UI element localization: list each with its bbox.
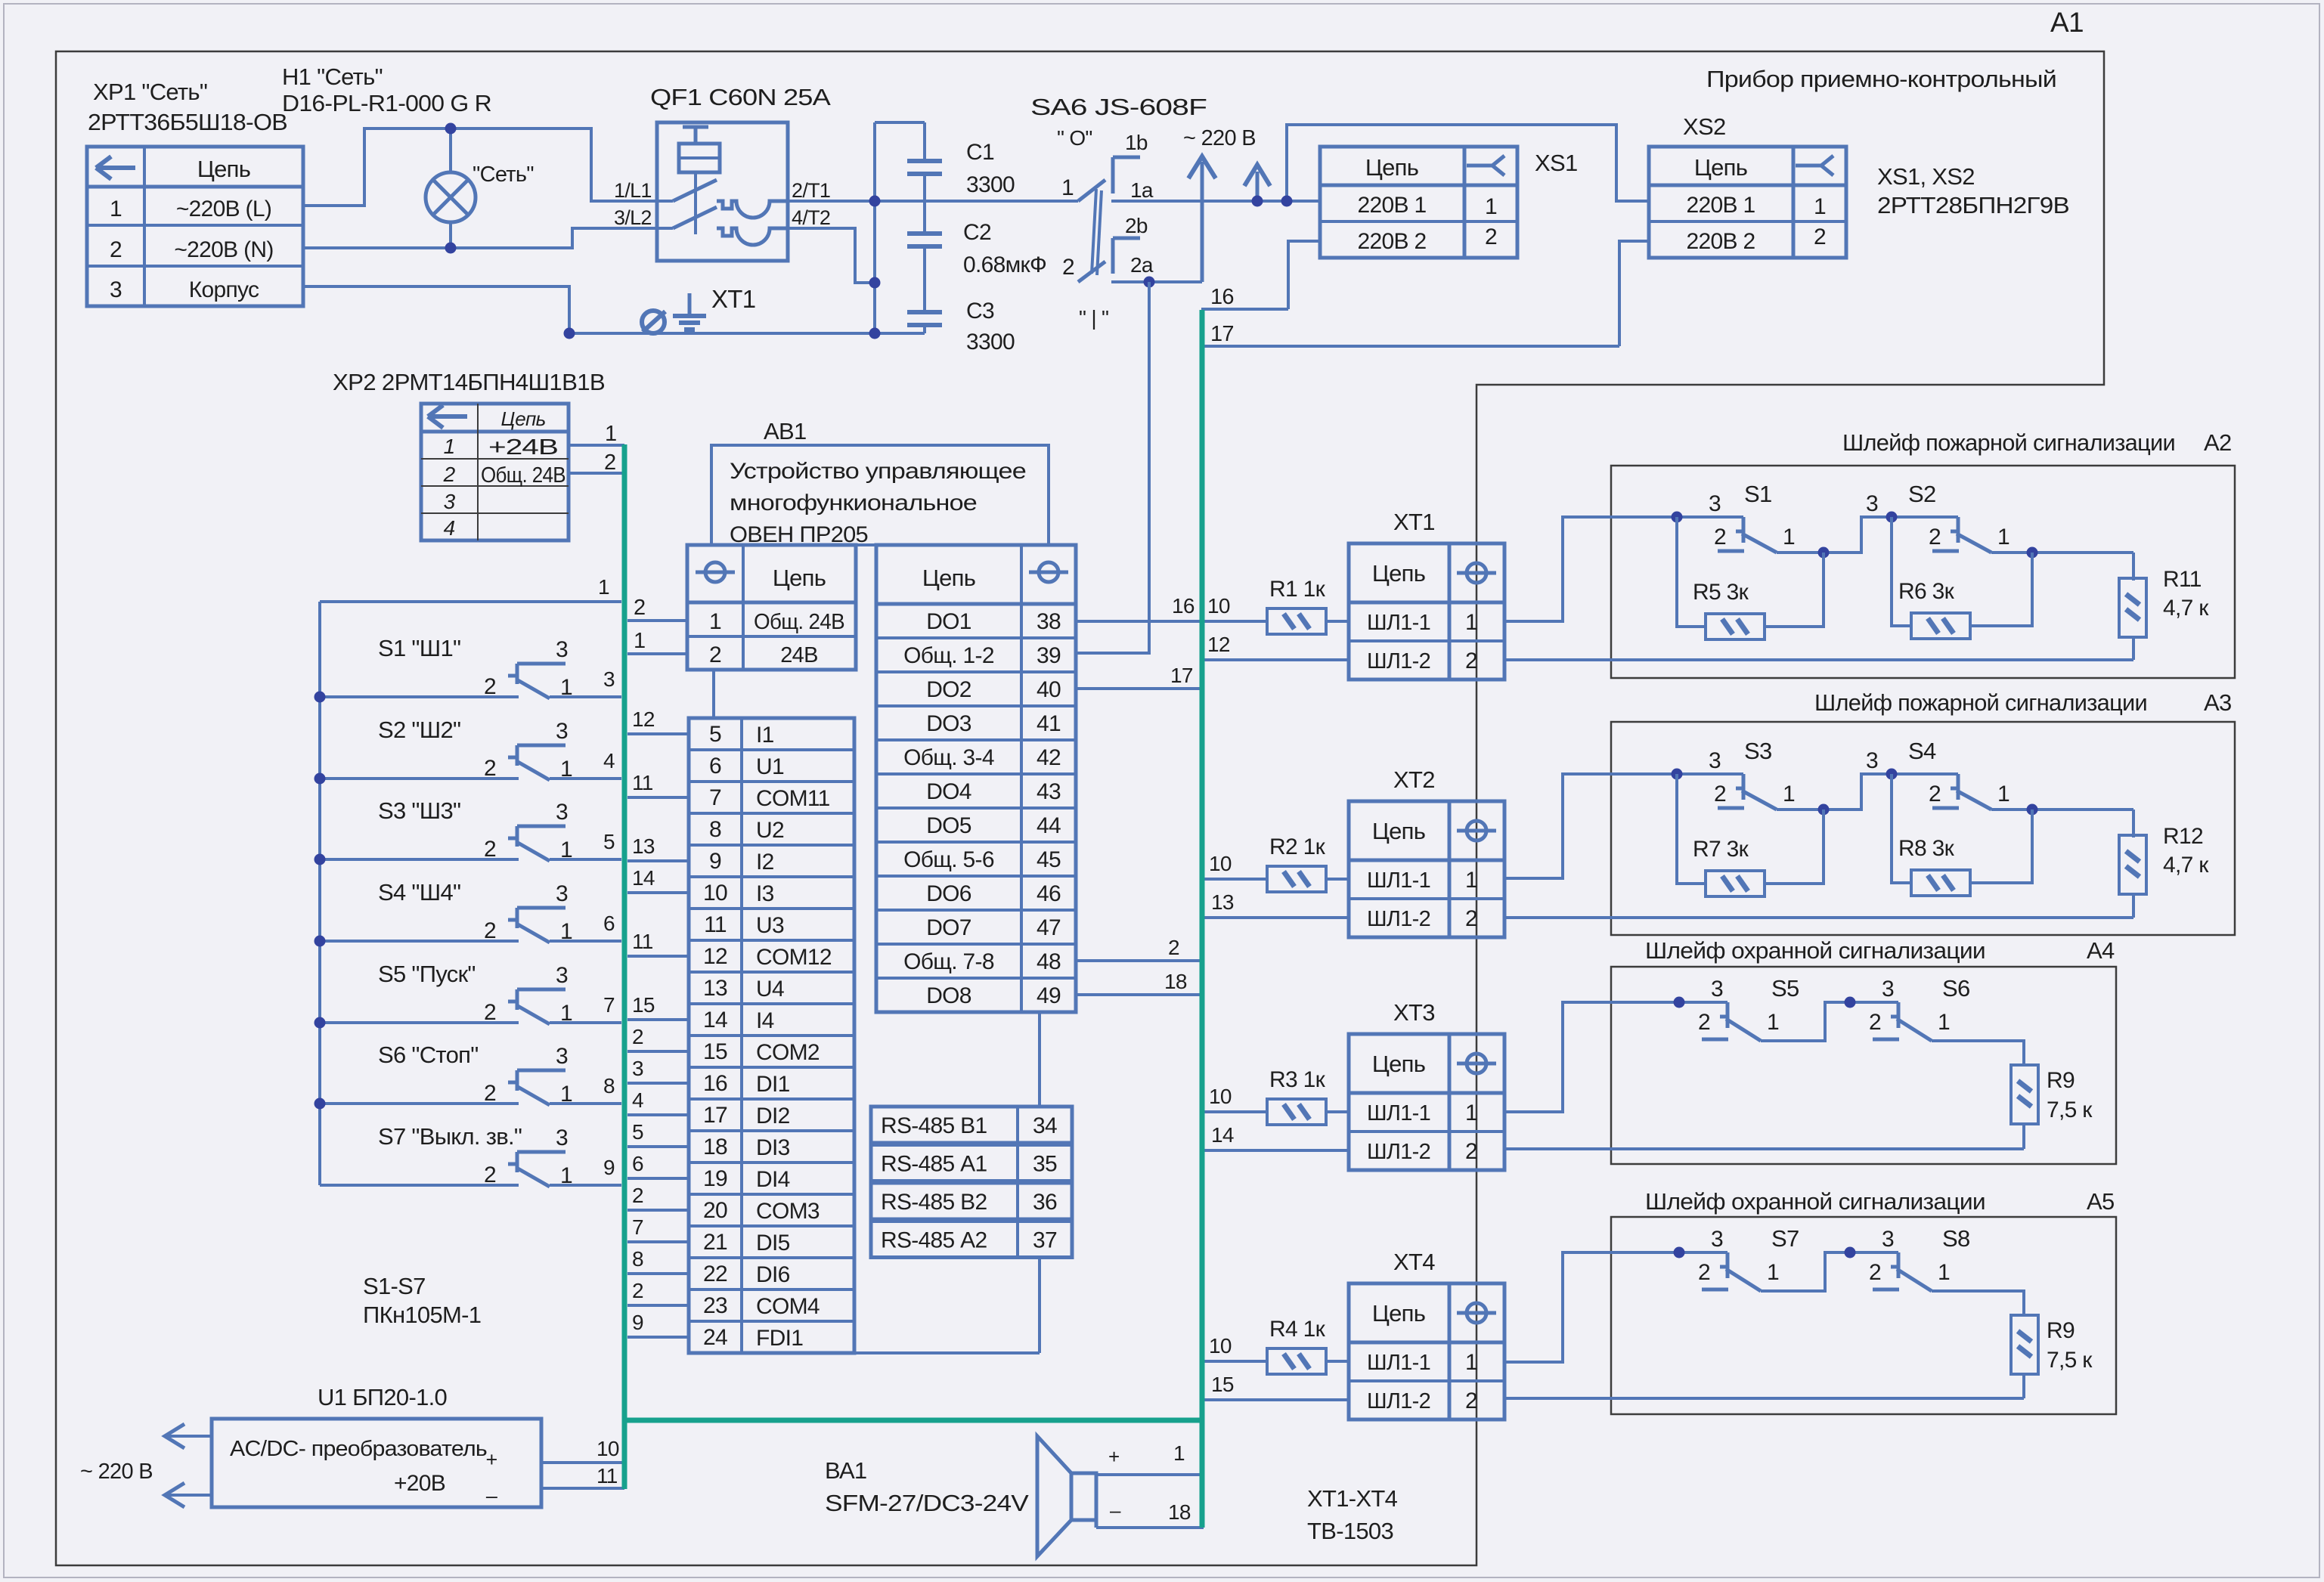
svg-text:48: 48 <box>1037 949 1061 974</box>
svg-text:R9: R9 <box>2047 1068 2075 1093</box>
svg-text:7: 7 <box>603 993 615 1017</box>
svg-text:9: 9 <box>632 1311 643 1334</box>
svg-text:2: 2 <box>1929 782 1941 806</box>
svg-text:49: 49 <box>1037 983 1061 1008</box>
svg-text:S5: S5 <box>1771 975 1799 1002</box>
svg-text:ШЛ1-1: ШЛ1-1 <box>1367 611 1430 635</box>
svg-text:3: 3 <box>556 719 568 744</box>
resistor R3 <box>1267 1099 1326 1125</box>
svg-text:2b: 2b <box>1125 214 1148 237</box>
svg-text:1: 1 <box>1938 1010 1950 1035</box>
svg-text:4,7 к: 4,7 к <box>2163 596 2209 621</box>
svg-text:1: 1 <box>1465 610 1477 635</box>
wire green bus bottom horizontal <box>624 1418 1204 1423</box>
svg-text:1/L1: 1/L1 <box>614 179 652 202</box>
svg-text:А4: А4 <box>2087 937 2115 964</box>
svg-text:ШЛ1-2: ШЛ1-2 <box>1367 907 1430 931</box>
wire RS table link top <box>1038 1012 1041 1107</box>
svg-text:2: 2 <box>1929 525 1941 550</box>
svg-text:220В 2: 220В 2 <box>1358 229 1427 254</box>
svg-text:+: + <box>1108 1445 1119 1468</box>
svg-text:Прибор приемно-контрольный: Прибор приемно-контрольный <box>1706 66 2056 92</box>
svg-text:1: 1 <box>598 575 609 599</box>
svg-text:XP2 2РМТ14БПН4Ш1В1В: XP2 2РМТ14БПН4Ш1В1В <box>333 369 605 395</box>
svg-text:+: + <box>485 1448 497 1471</box>
svg-text:ШЛ1-1: ШЛ1-1 <box>1367 1101 1430 1125</box>
svg-text:RS-485 В1: RS-485 В1 <box>881 1113 987 1138</box>
svg-text:COM2: COM2 <box>756 1040 820 1065</box>
svg-text:2: 2 <box>443 463 456 486</box>
svg-text:D16-PL-R1-000 G R: D16-PL-R1-000 G R <box>282 90 491 116</box>
svg-text:7: 7 <box>709 785 721 810</box>
svg-text:Общ. 24В: Общ. 24В <box>754 610 844 634</box>
svg-text:2a: 2a <box>1130 253 1154 277</box>
svg-text:U1: U1 <box>756 754 784 779</box>
svg-text:12: 12 <box>1207 633 1230 656</box>
svg-text:220В 2: 220В 2 <box>1687 229 1755 254</box>
switch S6 <box>1850 1001 1898 1004</box>
svg-text:8: 8 <box>632 1247 643 1271</box>
svg-text:Шлейф пожарной сигнализации: Шлейф пожарной сигнализации <box>1842 429 2175 456</box>
svg-text:11: 11 <box>704 912 727 937</box>
svg-text:Цепь: Цепь <box>1372 818 1425 844</box>
resistor R1 <box>1267 608 1326 634</box>
connector XS2 table <box>1649 147 1846 258</box>
wire between S3 and S4 <box>1777 774 1892 810</box>
wire R1 out to XT1 <box>1326 620 1349 623</box>
svg-text:8: 8 <box>603 1074 615 1097</box>
svg-text:9: 9 <box>603 1156 615 1179</box>
svg-text:2: 2 <box>1465 906 1477 931</box>
svg-text:U2: U2 <box>756 818 784 843</box>
terminal block XT1 table <box>1349 543 1504 680</box>
wire T2 to capacitor bank <box>788 228 875 283</box>
speaker BA1 <box>1071 1473 1096 1520</box>
svg-text:6: 6 <box>709 754 721 779</box>
wire 17 <box>1201 345 1619 348</box>
svg-text:" О": " О" <box>1057 126 1092 150</box>
svg-text:6: 6 <box>603 912 615 935</box>
wire loop entry <box>1504 1002 1679 1112</box>
resistor R5 <box>1677 517 1706 627</box>
svg-text:18: 18 <box>1168 1500 1191 1524</box>
wire 16 net from AB1 pin38 to R1 <box>1076 620 1267 623</box>
wire 13 to XT2 row2 <box>1204 916 1349 919</box>
svg-text:1: 1 <box>1465 1101 1477 1125</box>
svg-text:4: 4 <box>603 749 615 772</box>
svg-text:2: 2 <box>484 1081 496 1106</box>
svg-text:Цепь: Цепь <box>1372 560 1425 587</box>
svg-text:3: 3 <box>1711 977 1723 1002</box>
svg-text:R8 3к: R8 3к <box>1898 836 1955 861</box>
svg-text:1: 1 <box>1997 782 2009 806</box>
svg-text:Цепь: Цепь <box>197 156 250 182</box>
svg-text:1: 1 <box>1485 194 1497 219</box>
terminal block XT2 table <box>1349 801 1504 937</box>
svg-text:45: 45 <box>1037 847 1061 872</box>
svg-text:43: 43 <box>1037 779 1061 804</box>
svg-text:3: 3 <box>1709 491 1721 516</box>
svg-text:S7 "Выкл. зв.": S7 "Выкл. зв." <box>378 1123 522 1150</box>
svg-text:C2: C2 <box>963 220 991 245</box>
svg-text:1: 1 <box>1814 194 1826 219</box>
wire AB1 table link <box>712 670 715 718</box>
svg-text:2: 2 <box>632 1184 643 1207</box>
svg-text:3/L2: 3/L2 <box>614 206 652 229</box>
junction bottom rail <box>869 328 881 339</box>
svg-text:6: 6 <box>632 1152 643 1175</box>
svg-text:10: 10 <box>1209 852 1232 875</box>
svg-text:DO4: DO4 <box>926 779 971 804</box>
switch S1 <box>1677 515 1743 519</box>
svg-text:XT2: XT2 <box>1393 766 1435 793</box>
svg-text:ШЛ1-2: ШЛ1-2 <box>1367 1389 1430 1413</box>
resistor R9 end of line <box>2011 1065 2038 1124</box>
svg-text:А5: А5 <box>2087 1188 2115 1215</box>
svg-text:RS-485 А2: RS-485 А2 <box>881 1228 987 1253</box>
wire BA1 plus <box>1096 1473 1204 1476</box>
svg-text:14: 14 <box>1211 1123 1234 1147</box>
svg-text:2: 2 <box>484 837 496 862</box>
svg-text:Цепь: Цепь <box>1365 154 1418 181</box>
svg-text:17: 17 <box>1210 322 1234 346</box>
svg-text:U3: U3 <box>756 913 784 938</box>
svg-text:–: – <box>1110 1499 1121 1522</box>
junction 2a <box>1144 277 1155 288</box>
svg-text:4: 4 <box>632 1088 643 1112</box>
switch S3 <box>1677 772 1743 776</box>
svg-text:2РТТ28БПН2Г9В: 2РТТ28БПН2Г9В <box>1877 192 2069 218</box>
circuit breaker QF1 box <box>657 122 788 261</box>
svg-text:4,7 к: 4,7 к <box>2163 853 2209 878</box>
lamp H1 <box>426 172 476 222</box>
connector XP2 table <box>421 404 569 540</box>
switch S7 <box>1679 1251 1728 1254</box>
wire loop return <box>1504 1397 2024 1400</box>
svg-text:Общ. 3-4: Общ. 3-4 <box>903 745 994 770</box>
svg-text:1: 1 <box>1173 1441 1185 1465</box>
junction T2 rail <box>869 277 881 289</box>
svg-text:QF1 C60N 25A: QF1 C60N 25A <box>650 84 831 110</box>
junction S3 out <box>1818 804 1830 816</box>
svg-text:12: 12 <box>703 944 727 969</box>
svg-text:1: 1 <box>560 919 572 944</box>
svg-text:17: 17 <box>1170 664 1193 687</box>
svg-text:DO7: DO7 <box>926 915 971 940</box>
connector AB1 power table <box>687 545 856 670</box>
svg-text:40: 40 <box>1037 677 1061 702</box>
svg-text:XT3: XT3 <box>1393 999 1435 1026</box>
wire 39 from junction 2a to AB1 pin 39 <box>1076 282 1149 653</box>
wire green bus right vertical <box>1200 310 1205 1528</box>
svg-text:Общ. 24В: Общ. 24В <box>481 463 566 488</box>
svg-text:SA6 JS-608F: SA6 JS-608F <box>1030 94 1207 120</box>
svg-text:14: 14 <box>632 866 655 890</box>
svg-text:R2 1к: R2 1к <box>1269 834 1326 859</box>
wire 10 from green bus to R3 <box>1204 1110 1267 1113</box>
svg-text:3: 3 <box>1866 491 1878 516</box>
svg-text:Цепь: Цепь <box>773 565 826 591</box>
svg-text:15: 15 <box>703 1039 727 1064</box>
svg-text:1: 1 <box>560 1001 572 1026</box>
svg-text:+20В: +20В <box>394 1471 445 1496</box>
svg-text:Корпус: Корпус <box>189 277 259 302</box>
svg-text:S3 "Ш3": S3 "Ш3" <box>378 797 460 824</box>
ground clamp symbol <box>642 311 665 333</box>
svg-text:XS2: XS2 <box>1683 113 1726 140</box>
svg-text:7,5 к: 7,5 к <box>2047 1348 2093 1373</box>
svg-text:2: 2 <box>1465 1389 1477 1413</box>
svg-text:17: 17 <box>703 1103 727 1128</box>
svg-text:SFM-27/DC3-24V: SFM-27/DC3-24V <box>825 1490 1029 1516</box>
svg-text:47: 47 <box>1037 915 1061 940</box>
svg-text:1: 1 <box>560 1082 572 1107</box>
svg-text:Общ. 5-6: Общ. 5-6 <box>903 847 994 872</box>
svg-text:многофункиональное: многофункиональное <box>730 491 977 515</box>
svg-text:Цепь: Цепь <box>1372 1300 1425 1327</box>
svg-text:13: 13 <box>632 834 655 858</box>
svg-text:1: 1 <box>1783 782 1795 806</box>
switch S5 <box>320 1021 519 1024</box>
resistor R6 <box>1892 517 1911 626</box>
svg-text:1: 1 <box>1767 1260 1779 1285</box>
svg-text:R5 3к: R5 3к <box>1693 580 1749 605</box>
svg-text:1: 1 <box>605 422 616 446</box>
svg-text:3: 3 <box>603 667 615 691</box>
wire 220V arrow right <box>1256 172 1260 201</box>
svg-text:ШЛ1-2: ШЛ1-2 <box>1367 649 1430 673</box>
switch S7 <box>320 1184 519 1187</box>
wire 15 to XT4 row2 <box>1204 1398 1349 1401</box>
svg-text:3: 3 <box>556 1125 568 1150</box>
svg-text:2: 2 <box>484 1000 496 1025</box>
wire 2 from XP2 <box>569 472 622 475</box>
svg-text:А2: А2 <box>2204 429 2232 456</box>
junction lamp top <box>445 123 457 135</box>
svg-text:2РТТ36Б5Ш18-ОВ: 2РТТ36Б5Ш18-ОВ <box>88 109 287 135</box>
svg-text:S1 "Ш1": S1 "Ш1" <box>378 635 460 661</box>
svg-text:ШЛ1-1: ШЛ1-1 <box>1367 868 1430 893</box>
svg-text:3: 3 <box>1709 748 1721 773</box>
svg-text:COM4: COM4 <box>756 1294 820 1319</box>
svg-text:R3 1к: R3 1к <box>1269 1067 1326 1092</box>
svg-text:44: 44 <box>1037 813 1061 838</box>
svg-text:41: 41 <box>1037 711 1061 736</box>
svg-text:34: 34 <box>1033 1113 1057 1138</box>
svg-text:S1-S7: S1-S7 <box>363 1273 426 1299</box>
terminal block XT3 table <box>1349 1034 1504 1170</box>
wire R2 out to XT2 <box>1326 878 1349 881</box>
ground symbol XT1 <box>688 293 692 316</box>
wire 2 to AB1 pin1 <box>627 619 687 622</box>
wire R4 out to XT4 <box>1326 1360 1349 1363</box>
svg-text:18: 18 <box>1164 970 1187 993</box>
svg-text:Устройство управляющее: Устройство управляющее <box>730 459 1026 484</box>
svg-text:C3: C3 <box>966 299 994 324</box>
svg-text:COM11: COM11 <box>756 786 830 811</box>
wire 10 from U1 <box>541 1461 624 1464</box>
svg-text:Шлейф охранной сигнализации: Шлейф охранной сигнализации <box>1645 937 1985 964</box>
junction arrow right <box>1252 196 1263 207</box>
resistor R8 <box>1892 774 1911 883</box>
switch S4 <box>1892 772 1958 776</box>
wire loop entry <box>1504 774 1677 878</box>
svg-text:R4 1к: R4 1к <box>1269 1317 1326 1342</box>
svg-text:~220В (N): ~220В (N) <box>174 237 273 262</box>
svg-text:1a: 1a <box>1130 178 1154 202</box>
svg-text:S6 "Стоп": S6 "Стоп" <box>378 1042 479 1068</box>
svg-text:I3: I3 <box>756 881 774 906</box>
svg-text:~ 220 В: ~ 220 В <box>1183 126 1256 150</box>
svg-text:2: 2 <box>1698 1010 1710 1035</box>
wire to end resistor <box>1932 1291 2024 1316</box>
wire switch common bus <box>318 602 321 1185</box>
svg-text:3: 3 <box>556 1044 568 1069</box>
switch SA6 pole 2 <box>1078 262 1105 282</box>
switch S3 <box>320 858 519 861</box>
svg-text:3: 3 <box>556 881 568 906</box>
QF1 pole 1 contact <box>657 200 673 203</box>
wire 14 to XT3 row2 <box>1204 1149 1349 1152</box>
svg-text:U1 БП20-1.0: U1 БП20-1.0 <box>318 1384 448 1410</box>
capacitor bank top link <box>875 121 925 124</box>
svg-text:Шлейф охранной сигнализации: Шлейф охранной сигнализации <box>1645 1188 1985 1215</box>
switch S1 <box>320 695 519 698</box>
wire 10 from green bus to R2 <box>1204 878 1267 881</box>
svg-text:23: 23 <box>703 1293 727 1318</box>
wire link to XS2 row1 <box>1287 125 1649 201</box>
wire green bus left vertical <box>622 444 627 1489</box>
block A3 box <box>1611 722 2235 935</box>
switch S5 <box>1679 1001 1728 1004</box>
svg-text:2: 2 <box>632 1279 643 1302</box>
wire between S7 and S8 <box>1761 1252 1850 1291</box>
svg-text:S7: S7 <box>1771 1225 1799 1252</box>
wire T1 bus to switch SA6 <box>788 200 1078 203</box>
svg-text:DI3: DI3 <box>756 1135 790 1160</box>
wire 17 from AB1 pin40 <box>1076 687 1201 690</box>
wire R3 out to XT3 <box>1326 1110 1349 1113</box>
wire RS table link bottom <box>1038 1259 1041 1353</box>
svg-text:1: 1 <box>634 629 645 653</box>
svg-text:2: 2 <box>484 674 496 699</box>
svg-text:~ 220 В: ~ 220 В <box>80 1460 153 1484</box>
svg-text:12: 12 <box>632 707 655 731</box>
svg-text:10: 10 <box>703 881 727 906</box>
svg-text:Цепь: Цепь <box>922 565 975 591</box>
switch S6 <box>320 1102 519 1105</box>
resistor R11 end of line <box>2132 553 2135 580</box>
switch SA6 pole 1 <box>1078 180 1105 201</box>
svg-text:38: 38 <box>1037 609 1061 634</box>
svg-text:5: 5 <box>709 722 721 747</box>
svg-text:FDI1: FDI1 <box>756 1326 803 1351</box>
svg-text:7: 7 <box>632 1215 643 1239</box>
wire 12 to XT1 row2 <box>1204 658 1349 661</box>
connector AB1 output table <box>876 545 1076 1012</box>
svg-text:S1: S1 <box>1744 481 1772 507</box>
svg-text:3: 3 <box>1866 748 1878 773</box>
svg-text:AC/DC- преобразователь: AC/DC- преобразователь <box>230 1437 487 1461</box>
wire U1 ac input 1 <box>168 1435 212 1438</box>
svg-text:3: 3 <box>444 490 456 513</box>
junction ground corner <box>564 328 575 339</box>
svg-text:I2: I2 <box>756 850 774 875</box>
svg-text:3300: 3300 <box>966 330 1015 354</box>
wire 2 from AB1 pin48 <box>1076 959 1201 962</box>
svg-text:DI2: DI2 <box>756 1104 790 1128</box>
SA6 mechanical link <box>1092 189 1096 274</box>
svg-text:2: 2 <box>1485 224 1497 249</box>
svg-text:16: 16 <box>1172 594 1195 618</box>
svg-text:S4: S4 <box>1908 738 1936 764</box>
svg-text:19: 19 <box>703 1166 727 1191</box>
svg-text:2: 2 <box>110 237 122 262</box>
svg-text:3: 3 <box>632 1057 643 1080</box>
svg-text:2: 2 <box>484 1163 496 1187</box>
svg-text:8: 8 <box>709 817 721 842</box>
svg-text:10: 10 <box>1209 1085 1232 1108</box>
capacitor bank left rail <box>873 122 876 333</box>
svg-text:I4: I4 <box>756 1008 774 1033</box>
svg-text:S2 "Ш2": S2 "Ш2" <box>378 717 460 743</box>
svg-text:0.68мкФ: 0.68мкФ <box>963 252 1046 277</box>
svg-text:7,5 к: 7,5 к <box>2047 1097 2093 1122</box>
svg-text:Общ. 7-8: Общ. 7-8 <box>903 949 994 974</box>
junction lamp bottom <box>445 243 457 254</box>
svg-text:А3: А3 <box>2204 689 2232 716</box>
connector XS1 table <box>1320 147 1517 258</box>
svg-text:220В 1: 220В 1 <box>1687 193 1755 218</box>
svg-text:DO3: DO3 <box>926 711 971 736</box>
wire XS2 row2 to wire 17 <box>1619 241 1649 346</box>
wire 10 from green bus to R4 <box>1204 1360 1267 1363</box>
svg-text:R7 3к: R7 3к <box>1693 837 1749 862</box>
capacitor C3 <box>923 248 926 311</box>
svg-text:1: 1 <box>1997 525 2009 550</box>
svg-text:21: 21 <box>703 1230 727 1255</box>
svg-text:2: 2 <box>1714 525 1726 550</box>
wire L from XP1 to QF1 <box>303 128 657 206</box>
svg-text:2: 2 <box>484 756 496 781</box>
svg-text:5: 5 <box>632 1120 643 1144</box>
block A5 box <box>1611 1217 2116 1414</box>
svg-text:2: 2 <box>1869 1010 1881 1035</box>
svg-text:~220В (L): ~220В (L) <box>176 197 271 221</box>
svg-text:XT1-XT4: XT1-XT4 <box>1307 1485 1398 1512</box>
wire bus top to green <box>320 600 621 603</box>
svg-text:1: 1 <box>560 1163 572 1188</box>
svg-text:DO8: DO8 <box>926 983 971 1008</box>
resistor R2 <box>1267 866 1326 892</box>
svg-text:1: 1 <box>1767 1010 1779 1035</box>
wire between S5 and S6 <box>1761 1002 1850 1041</box>
capacitor C1 <box>923 122 926 159</box>
svg-text:11: 11 <box>632 930 653 953</box>
svg-text:DO2: DO2 <box>926 677 971 702</box>
svg-text:11: 11 <box>632 771 653 794</box>
svg-text:1: 1 <box>1465 1350 1477 1375</box>
svg-text:S2: S2 <box>1908 481 1936 507</box>
svg-text:Цепь: Цепь <box>500 407 545 430</box>
QF1 pole 2 contact <box>657 227 673 230</box>
svg-text:2: 2 <box>634 596 645 620</box>
svg-text:3300: 3300 <box>966 172 1015 197</box>
svg-text:2: 2 <box>484 918 496 943</box>
switch S4 <box>320 940 519 943</box>
svg-text:R11: R11 <box>2163 567 2202 592</box>
svg-text:10: 10 <box>1209 1334 1232 1358</box>
